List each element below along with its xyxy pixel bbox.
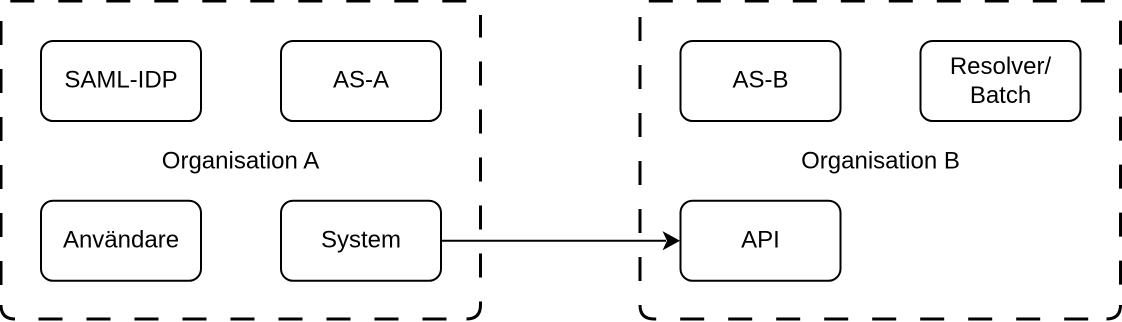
svg-text:Användare: Användare [63,227,179,254]
container Organisation A (dashed) [1,1,481,319]
box Resolver/Batch [921,41,1081,121]
svg-text:Resolver/: Resolver/ [950,53,1052,80]
box API [681,201,841,281]
box System [281,201,441,281]
container Organisation B (dashed) [640,1,1121,319]
box AS-B [681,41,841,121]
svg-text:AS-B: AS-B [732,67,788,94]
svg-text:Organisation B: Organisation B [801,148,960,175]
box Användare [41,201,201,281]
arrow System to API (wire) [442,231,680,250]
svg-text:System: System [321,227,401,254]
svg-text:API: API [741,227,780,254]
svg-text:Organisation A: Organisation A [162,148,319,175]
svg-text:SAML-IDP: SAML-IDP [64,67,177,94]
box SAML-IDP [41,41,201,121]
svg-text:Batch: Batch [970,82,1031,109]
svg-text:AS-A: AS-A [333,67,389,94]
label Organisation B [801,148,960,175]
box AS-A [281,41,441,121]
label Organisation A [162,148,319,175]
